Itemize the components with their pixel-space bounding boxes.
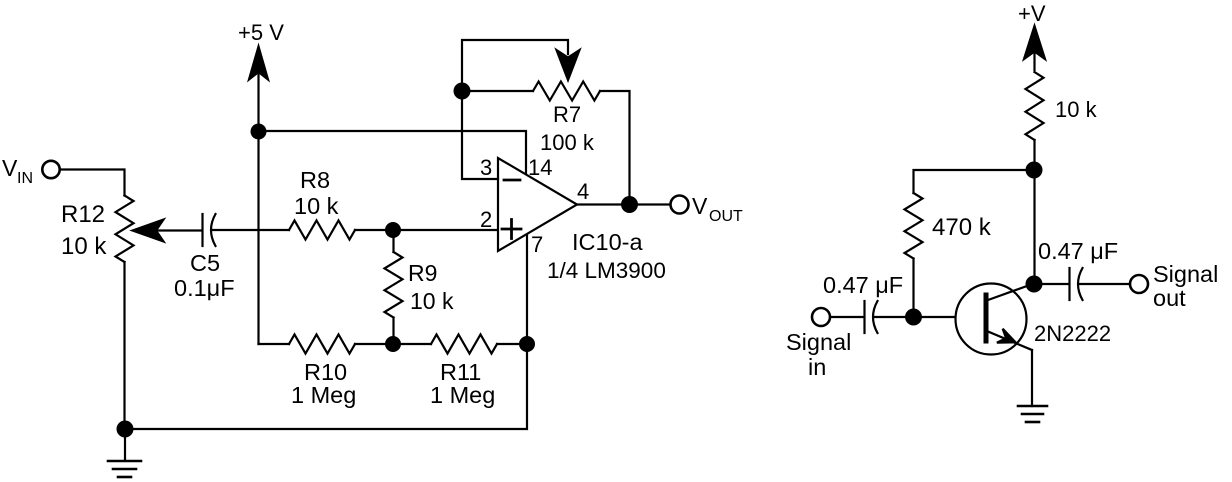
node signal-out terminal: [1130, 275, 1148, 293]
svg-text:+V: +V: [1018, 1, 1046, 26]
svg-text:4: 4: [577, 179, 589, 204]
svg-text:1 Meg: 1 Meg: [291, 382, 356, 408]
node R9/R10/R11 junction: [385, 336, 401, 352]
wire VIN to R12 top: [61, 170, 125, 196]
svg-text:1 Meg: 1 Meg: [430, 382, 495, 408]
svg-text:470 k: 470 k: [932, 214, 992, 241]
resistor 470k: [905, 193, 923, 259]
svg-text:14: 14: [528, 155, 552, 180]
wire 470k bottom to base node: [912, 259, 914, 318]
svg-text:OUT: OUT: [709, 208, 743, 225]
svg-text:C5: C5: [190, 250, 220, 276]
R12 wiper arrow: [133, 220, 203, 242]
capacitor 0.47uF input: [865, 301, 878, 333]
svg-text:7: 7: [531, 232, 543, 257]
power +5V arrow: [249, 47, 268, 345]
svg-text:R12: R12: [61, 201, 105, 228]
svg-text:10 k: 10 k: [410, 288, 454, 314]
wire R10 to junction: [355, 343, 393, 345]
svg-text:10 k: 10 k: [294, 193, 339, 219]
svg-text:10 k: 10 k: [61, 233, 107, 260]
wire feedback top loop: [462, 40, 568, 91]
wire collector to cap: [1034, 283, 1069, 285]
svg-text:1/4 LM3900: 1/4 LM3900: [547, 258, 666, 283]
node 10k/470k junction: [1026, 162, 1043, 179]
wire junction to R11: [393, 343, 431, 345]
resistor 10k: [1026, 72, 1044, 140]
resistor R11: [431, 335, 497, 354]
wire R7 left lead: [470, 90, 533, 92]
wire junction to 470k top: [914, 170, 1035, 193]
node VIN terminal: [42, 161, 59, 178]
wire cap to base node: [875, 316, 984, 318]
resistor R8: [289, 221, 355, 240]
node ground junction: [117, 421, 134, 438]
potentiometer R7: [533, 82, 600, 101]
resistor R10: [289, 335, 355, 354]
wire input terminal to cap: [831, 316, 864, 318]
op-amp minus input marker: [504, 179, 520, 182]
power +V arrow: [1024, 26, 1045, 70]
wire R8 to node at pin 2: [355, 229, 498, 231]
R7 wiper arrow: [557, 50, 580, 80]
svg-text:0.1μF: 0.1μF: [174, 275, 235, 301]
wire R12 bottom to ground node: [123, 262, 125, 429]
svg-text:2N2222: 2N2222: [1034, 321, 1111, 346]
wire R7 right lead to output node: [600, 91, 630, 205]
svg-text:0.47 μF: 0.47 μF: [823, 272, 903, 298]
svg-text:3: 3: [480, 155, 492, 180]
wire R11 to pin7 leg: [497, 343, 527, 345]
ground left: [108, 461, 141, 477]
node feedback junction: [454, 83, 471, 100]
op-amp plus input marker: [502, 220, 521, 239]
svg-text:in: in: [808, 354, 826, 380]
wire left leg to R10: [259, 343, 290, 345]
node VOUT terminal: [671, 196, 689, 214]
node output junction: [621, 196, 638, 213]
node R8/R9/pin2 junction: [385, 222, 401, 238]
capacitor 0.47uF output: [1070, 268, 1083, 300]
wire pin 3 input: [462, 100, 498, 179]
wire emitter to ground: [1031, 350, 1033, 406]
svg-text:R8: R8: [300, 167, 330, 193]
node base junction: [905, 309, 922, 326]
wire cap to output terminal: [1080, 283, 1129, 285]
svg-text:Signal: Signal: [1153, 261, 1218, 287]
svg-text:R9: R9: [408, 260, 437, 286]
svg-text:+5 V: +5 V: [238, 20, 284, 45]
svg-text:Signal: Signal: [786, 329, 851, 355]
svg-text:out: out: [1153, 285, 1186, 311]
svg-text:V: V: [2, 155, 18, 181]
svg-text:100 k: 100 k: [540, 130, 595, 155]
svg-text:IN: IN: [17, 170, 33, 187]
svg-text:V: V: [692, 193, 708, 219]
capacitor C5: [203, 214, 216, 246]
wire C5 to R8: [213, 229, 289, 231]
node R11/pin7 junction: [519, 336, 535, 352]
svg-text:0.47 μF: 0.47 μF: [1038, 238, 1118, 264]
wire ground stub: [124, 429, 126, 460]
node collector junction: [1026, 276, 1043, 293]
op-amp U1 IC10-a triangle: [498, 158, 577, 251]
node signal-in terminal: [812, 308, 830, 326]
svg-text:IC10-a: IC10-a: [572, 229, 643, 255]
wire +5V rail to pin 14: [259, 131, 527, 175]
svg-text:2: 2: [480, 207, 492, 232]
resistor R9: [385, 238, 403, 336]
wire 10k to collector node: [1033, 140, 1035, 284]
svg-text:R7: R7: [553, 102, 581, 127]
svg-text:10 k: 10 k: [1055, 97, 1098, 122]
transistor Q1 2N2222: [956, 284, 1035, 355]
node +5V rail junction: [251, 124, 267, 140]
ground right: [1018, 406, 1047, 422]
wire pin 4 output: [577, 203, 669, 205]
potentiometer R12: [116, 196, 134, 263]
wire pin 7 leg down to bottom rail: [125, 234, 527, 429]
